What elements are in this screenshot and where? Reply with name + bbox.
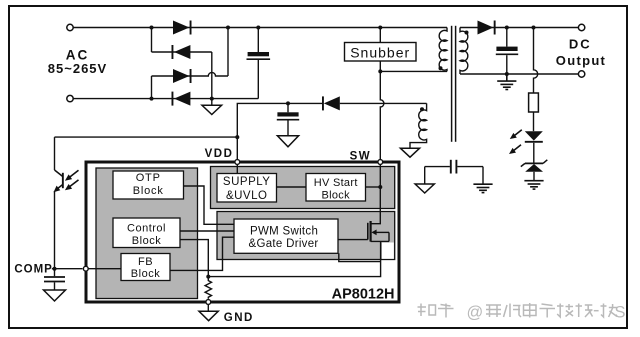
U1 left gray block <box>96 168 198 299</box>
capacitor C3 COMP <box>44 269 65 290</box>
U1 middle gray block <box>217 212 395 260</box>
wire opto emitter to COMP <box>54 191 56 269</box>
ground Y-cap secondary side (earth) <box>473 184 492 192</box>
AC input label <box>48 48 107 77</box>
svg-text:VDD: VDD <box>205 148 234 160</box>
white notch under MOSFET loop <box>382 243 394 259</box>
T1 primary polarity dot <box>439 66 443 70</box>
node bottom wire / D3 branch <box>150 97 154 101</box>
svg-text:&UVLO: &UVLO <box>226 190 268 202</box>
wire D2 output vertical <box>211 52 213 99</box>
ground primary (bridge) <box>202 99 222 115</box>
wire primary bottom <box>380 70 447 72</box>
DC output terminal - <box>578 71 584 77</box>
svg-text:GND: GND <box>224 312 254 324</box>
wire top AC line <box>73 27 447 29</box>
svg-text:OTP: OTP <box>136 172 161 184</box>
T1 aux polarity dot <box>420 107 424 111</box>
svg-text:85~265V: 85~265V <box>48 61 107 76</box>
diode D5 output rectifier <box>478 21 496 35</box>
wire SUPPLY to HV Start <box>277 186 307 188</box>
wire bottom AC line <box>73 98 258 100</box>
U2 light arrows <box>65 170 79 190</box>
AC terminal bottom <box>67 95 73 101</box>
wire opto collector drop <box>54 137 56 170</box>
svg-text:SUPPLY: SUPPLY <box>223 176 271 188</box>
wire secondary bottom to DC- <box>460 73 578 75</box>
wire D3 output vertical to plus bus <box>227 28 229 77</box>
ground aux <box>400 148 419 157</box>
diode D2 <box>172 45 191 59</box>
wire secondary top to DC+ <box>460 27 578 29</box>
wire LED to zener <box>533 143 535 163</box>
COMP pin <box>83 266 88 271</box>
svg-text:PWM Switch: PWM Switch <box>250 225 318 237</box>
svg-text:@: @ <box>467 304 484 322</box>
svg-text:Block: Block <box>132 235 161 247</box>
transformer T1 core <box>452 26 456 142</box>
wire VDD rail: pin up, left corner, across with hop at SW line <box>237 103 322 159</box>
node bottom wire / ground <box>210 97 214 101</box>
capacitor C2 VDD <box>277 103 299 135</box>
wire SW pin to MOSFET drain <box>371 165 380 224</box>
wire PWM aux down <box>339 253 381 261</box>
PWM Switch &Gate Driver block <box>234 219 338 253</box>
svg-text:Block: Block <box>133 185 164 197</box>
svg-text:DC: DC <box>569 37 592 52</box>
diode D3 <box>173 69 192 83</box>
wire snubber to SW node <box>380 61 384 160</box>
svg-text:AP8012H: AP8012H <box>332 286 395 302</box>
watermark 知乎 @骊微电子科技-杜S <box>418 303 626 322</box>
GND pin <box>206 300 211 305</box>
optocoupler U2 phototransistor <box>54 170 64 192</box>
wire OTP to PWM <box>184 186 235 224</box>
wire PWM gate drive <box>338 239 368 241</box>
wire R2 to LED <box>533 112 535 131</box>
svg-text:S: S <box>615 304 626 322</box>
zener D8 <box>521 160 548 172</box>
SUPPLY &UVLO block <box>217 174 277 203</box>
svg-text:Snubber: Snubber <box>350 44 410 60</box>
ground Y-cap primary side <box>415 184 434 193</box>
Control Block <box>113 218 180 248</box>
ground zener (earth) <box>524 181 543 189</box>
wire D2 row <box>152 51 212 53</box>
AC terminal top <box>67 24 73 30</box>
diode D6 aux to VDD <box>322 96 340 110</box>
resistor R2 feedback <box>529 93 539 112</box>
LED D7 (opto emitter) <box>525 131 543 142</box>
wire Control to PWM <box>180 230 234 232</box>
ground secondary (earth) <box>497 74 516 90</box>
svg-text:Control: Control <box>127 222 166 234</box>
T1 secondary polarity dot <box>465 31 469 35</box>
wire top bus to snubber <box>379 28 381 43</box>
LED arrows <box>509 130 522 154</box>
node snubber top <box>378 26 382 30</box>
diode D1 <box>173 21 192 35</box>
FB Block <box>121 254 170 281</box>
wire HV Start to SW line <box>366 186 381 188</box>
node top wire / D2 branch <box>150 26 154 30</box>
capacitor C1 bulk <box>247 28 271 99</box>
node COMP <box>53 267 57 271</box>
node feedback branch top <box>532 26 536 30</box>
node output cap <box>505 26 509 30</box>
wire FB output <box>170 237 234 270</box>
wire D3 row with hop over vertical <box>152 72 229 76</box>
wire opto collector rail <box>55 136 238 138</box>
transformer T1 primary winding <box>439 28 447 72</box>
U1 top-right gray block <box>211 167 395 209</box>
wire bridge left vertical lower <box>151 76 153 99</box>
svg-text:SW: SW <box>350 150 372 162</box>
ground GND pin <box>199 305 218 321</box>
wire COMP <box>52 268 83 270</box>
capacitor C4 output <box>496 28 518 75</box>
wire Control to sense node <box>180 240 208 277</box>
svg-text:Block: Block <box>131 268 160 280</box>
wire diode to aux winding with hop <box>340 102 427 104</box>
svg-text:&Gate Driver: &Gate Driver <box>249 238 319 250</box>
node top wire / D3 output <box>226 26 230 30</box>
MOSFET Q1 <box>368 221 389 242</box>
wire COMP pin to FB <box>88 268 121 270</box>
DC output terminal + <box>578 24 584 30</box>
OTP Block <box>113 171 184 199</box>
ground VDD cap <box>277 136 298 147</box>
resistor R1 sense <box>205 277 211 299</box>
wire VDD pin into SUPPLY <box>236 165 238 174</box>
svg-text:Block: Block <box>321 190 350 202</box>
svg-text:FB: FB <box>138 256 153 268</box>
svg-text:HV Start: HV Start <box>314 177 358 189</box>
wire zener to ground <box>533 172 535 180</box>
transformer T1 aux winding <box>410 103 427 147</box>
wire source rail to sense node <box>208 241 380 276</box>
node VDD cap <box>286 101 290 105</box>
VDD pin <box>235 160 240 165</box>
svg-text:Output: Output <box>556 53 606 68</box>
HV Start Block <box>306 174 366 202</box>
SW pin <box>378 160 383 165</box>
IC U1 AP8012H outline <box>86 162 399 302</box>
node HV/SW <box>378 185 382 189</box>
snubber box <box>345 43 417 62</box>
DC Output label <box>556 37 606 68</box>
transformer T1 secondary winding <box>460 28 468 75</box>
node snubber bottom / primary <box>378 69 382 73</box>
wire feedback branch with hop over return <box>534 28 538 94</box>
node VDD / opto branch <box>235 135 239 139</box>
node output return / cap <box>505 72 509 76</box>
diode D4 <box>172 92 191 106</box>
wire bridge left vertical upper <box>151 28 153 53</box>
node top wire / bulk cap <box>256 26 260 30</box>
capacitor C5 Y-cap <box>425 160 483 184</box>
ground COMP <box>44 290 66 301</box>
svg-text:COMP: COMP <box>14 263 53 275</box>
node sense <box>206 275 210 279</box>
